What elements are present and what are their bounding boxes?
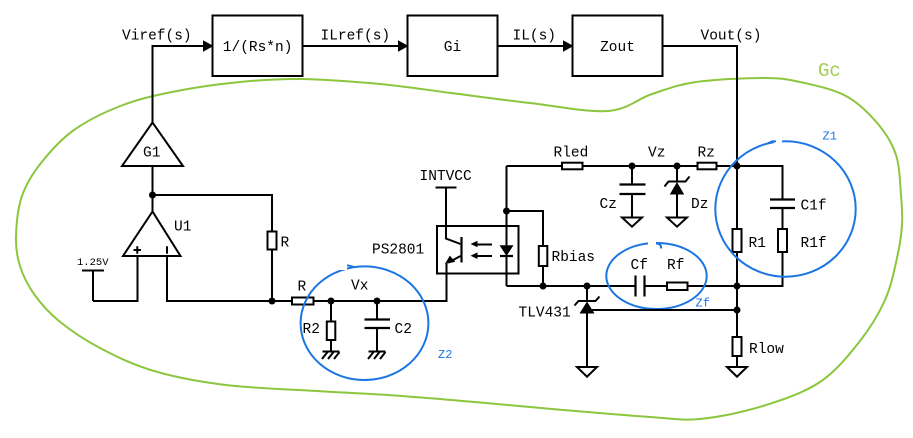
plus input mark xyxy=(134,246,142,253)
ground Rlow xyxy=(727,367,747,377)
junction at U1 output rail xyxy=(269,298,276,305)
wire C1f to R1f xyxy=(782,208,784,229)
svg-text:Vz: Vz xyxy=(648,146,665,162)
svg-text:U1: U1 xyxy=(174,220,191,236)
wire Rf to bus xyxy=(688,285,738,287)
zener Dz xyxy=(676,166,678,182)
svg-text:R1: R1 xyxy=(749,236,766,252)
ground Dz xyxy=(667,218,687,227)
capacitor Cf xyxy=(636,276,645,297)
wire G1 output to node xyxy=(152,166,154,211)
LED of optocoupler xyxy=(506,166,508,245)
svg-text:Vout(s): Vout(s) xyxy=(701,29,762,45)
svg-text:Zout: Zout xyxy=(600,40,635,56)
wire Rled to Cz node xyxy=(583,165,633,167)
wire Viref vertical from G1 up and into block 1/(Rs*n) xyxy=(153,46,207,123)
ground C2 xyxy=(368,352,386,360)
svg-text:Rz: Rz xyxy=(698,146,715,162)
svg-text:Z1: Z1 xyxy=(823,130,837,144)
junction Rbias bottom xyxy=(540,283,547,290)
wire Dz to ground xyxy=(676,195,678,218)
svg-text:Rbias: Rbias xyxy=(552,250,596,266)
branch C1f/R1f xyxy=(737,166,783,199)
wire Rz to bus xyxy=(717,165,738,167)
wire Cz node to Dz node xyxy=(632,165,677,167)
wire Zout to right bus xyxy=(663,46,738,166)
capacitor Cz xyxy=(631,166,633,184)
optocoupler box xyxy=(437,226,519,274)
junction Cz top xyxy=(629,163,636,170)
light arrow lower xyxy=(477,255,492,257)
wire TLV431 ref to divider node xyxy=(592,309,737,311)
wire Gi to Zout xyxy=(498,45,567,47)
svg-text:Rlow: Rlow xyxy=(749,342,784,358)
svg-text:Rf: Rf xyxy=(667,258,684,274)
wire minus input to bottom rail xyxy=(167,256,272,301)
svg-text:R: R xyxy=(281,236,290,252)
wire bus to R1 xyxy=(736,166,738,229)
ground TLV431 xyxy=(577,367,597,377)
resistor Rbias xyxy=(539,246,548,266)
wire Cf to Rf xyxy=(645,285,668,287)
minus input mark xyxy=(166,246,168,253)
phototransistor emitter with arrow xyxy=(450,256,461,262)
svg-text:Viref(s): Viref(s) xyxy=(122,29,192,45)
amplifier G1 xyxy=(122,123,183,167)
arrowhead into Gi xyxy=(398,40,409,51)
arrowhead into Zout xyxy=(563,40,574,51)
resistor R1 xyxy=(733,229,742,252)
svg-text:Vx: Vx xyxy=(351,279,369,295)
resistor Rf xyxy=(667,283,688,291)
resistor Rlow xyxy=(733,337,742,356)
wire node to resistor R top xyxy=(153,195,273,232)
capacitor C2 xyxy=(376,301,378,319)
op-amp U1 xyxy=(123,212,181,257)
wire R2 to ground xyxy=(330,340,332,352)
wire Rlow to ground xyxy=(736,356,738,367)
wire Rbias to bottom wire xyxy=(542,266,544,286)
svg-text:1/(Rs*n): 1/(Rs*n) xyxy=(223,40,293,56)
loop Z2 (blue ellipse) xyxy=(301,266,429,380)
svg-text:PS2801: PS2801 xyxy=(372,243,424,259)
arrowhead into 1/(Rs*n) xyxy=(203,40,214,51)
junction LED anode / Rbias xyxy=(503,208,510,215)
svg-text:R1f: R1f xyxy=(801,236,827,252)
resistor R (vertical feedback) xyxy=(268,232,277,250)
wire bottom rail opto LED to Cf xyxy=(507,285,636,287)
wire Cz to ground xyxy=(631,194,633,217)
svg-text:Zf: Zf xyxy=(696,297,710,311)
light arrow upper xyxy=(477,244,492,246)
resistor Rz xyxy=(677,165,698,167)
svg-text:INTVCC: INTVCC xyxy=(420,169,473,185)
junction TLV431 cathode xyxy=(584,283,591,290)
svg-text:ILref(s): ILref(s) xyxy=(321,29,391,45)
svg-text:TLV431: TLV431 xyxy=(519,306,571,322)
wire C2 to ground xyxy=(376,328,378,352)
junction node at G1/U1 xyxy=(149,192,156,199)
junction ref/divider xyxy=(734,307,741,314)
block Zout xyxy=(573,16,663,77)
capacitor C1f xyxy=(770,200,795,209)
loop Z1 (blue ellipse) xyxy=(715,141,855,276)
svg-text:R: R xyxy=(298,280,307,296)
wire R to Vx xyxy=(314,275,447,301)
wire 1.25V to plus input xyxy=(93,256,138,301)
resistor Rled xyxy=(507,165,563,167)
phototransistor bar xyxy=(460,237,462,263)
svg-text:Gc: Gc xyxy=(818,60,841,82)
wire emitter down to Vx rail xyxy=(446,264,448,301)
junction Vout bus / Rz xyxy=(734,163,741,170)
block 1/(Rs*n) xyxy=(213,16,303,77)
resistor R2 xyxy=(330,301,332,322)
junction Dz top xyxy=(674,163,681,170)
resistor R1f xyxy=(778,229,787,252)
wire R bottom to junction xyxy=(271,250,273,302)
svg-text:Gi: Gi xyxy=(444,40,461,56)
svg-text:G1: G1 xyxy=(143,146,160,162)
ground R2 xyxy=(322,352,340,360)
svg-text:Cz: Cz xyxy=(600,197,617,213)
svg-text:C1f: C1f xyxy=(801,199,827,215)
svg-text:1.25V: 1.25V xyxy=(77,257,109,269)
junction C2 top xyxy=(374,298,381,305)
wire block1 to Gi xyxy=(303,45,402,47)
wire R1f to bottom node xyxy=(737,252,783,286)
loop Zf (blue ellipse) xyxy=(606,243,706,309)
svg-text:Dz: Dz xyxy=(691,197,708,213)
ground Cz xyxy=(622,218,642,227)
svg-text:R2: R2 xyxy=(303,322,320,338)
wire INTVCC to phototransistor collector xyxy=(446,188,461,245)
svg-text:C2: C2 xyxy=(395,322,412,338)
block Gi xyxy=(408,16,498,77)
junction bottom bus xyxy=(734,283,741,290)
svg-text:Cf: Cf xyxy=(631,258,648,274)
svg-text:Rled: Rled xyxy=(554,146,589,162)
wire node to Rlow xyxy=(736,310,738,337)
wire junction to Rbias xyxy=(507,211,544,246)
junction R2 top xyxy=(328,298,335,305)
loop Gc (green hand-drawn enclosure) xyxy=(16,78,902,420)
wire TLV431 anode to ground xyxy=(586,314,588,367)
resistor R (horizontal) xyxy=(272,300,292,302)
wire R1 to bottom node xyxy=(736,252,738,310)
svg-text:Z2: Z2 xyxy=(438,348,452,362)
svg-text:IL(s): IL(s) xyxy=(513,29,557,45)
